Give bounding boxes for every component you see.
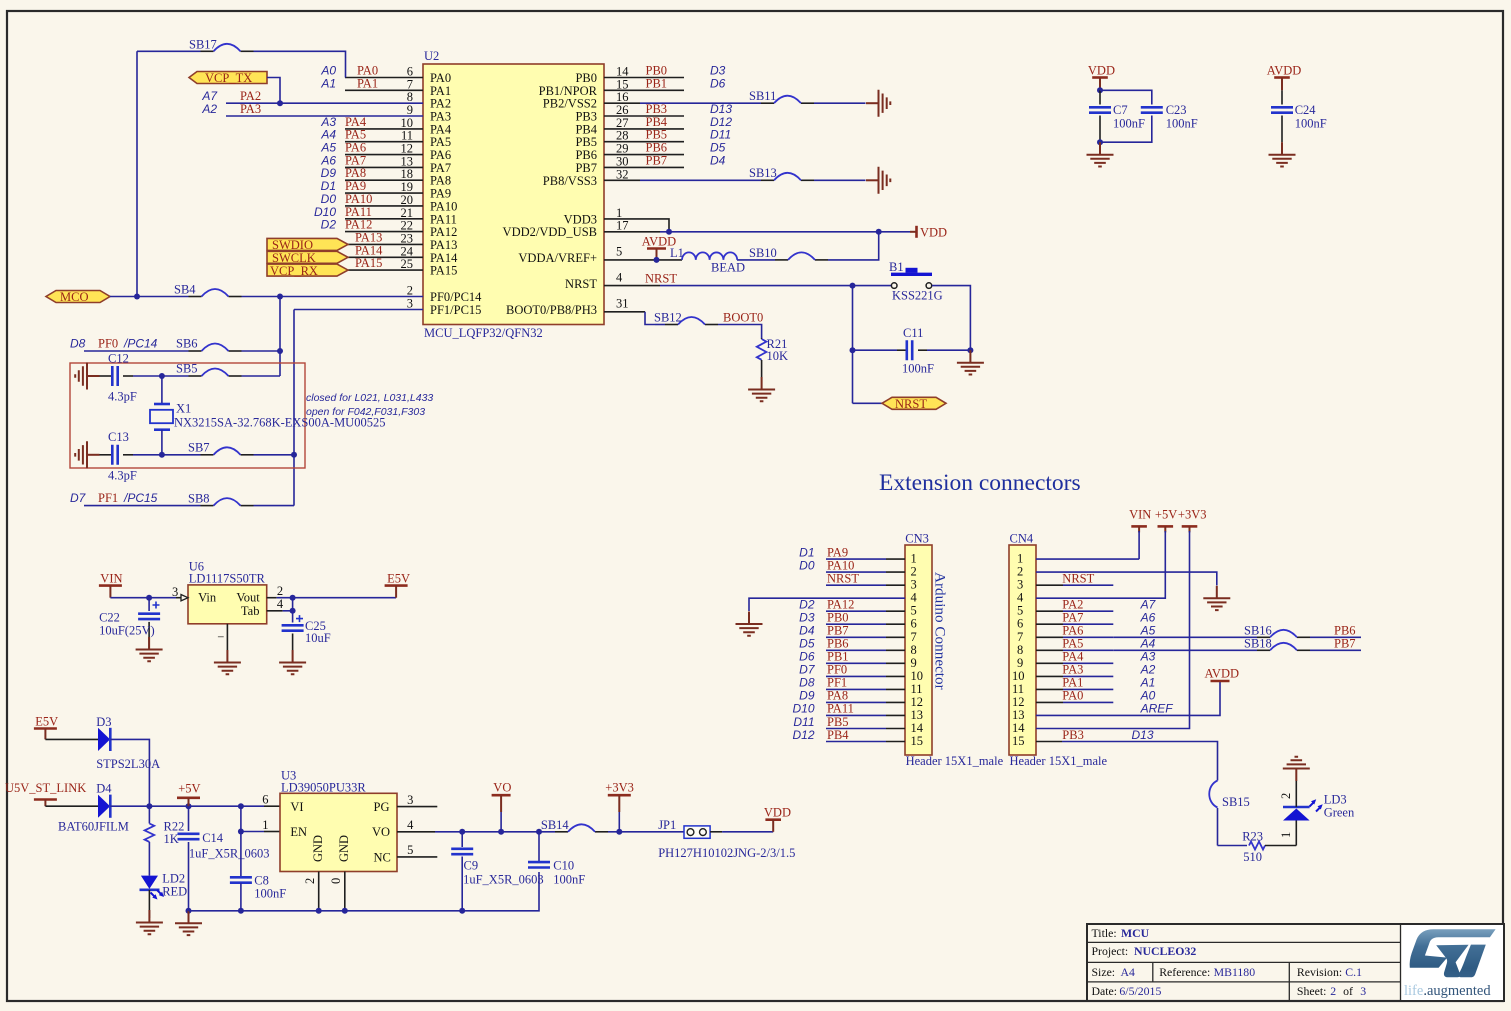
junction C10 top xyxy=(536,829,542,835)
CN3 pin1 wire PA9 xyxy=(799,546,905,560)
wire D4 to U3 xyxy=(110,805,264,807)
svg-text:E5V: E5V xyxy=(387,572,410,586)
U6 GND pin xyxy=(226,624,228,650)
svg-text:Arduino Connector: Arduino Connector xyxy=(932,572,949,690)
svg-text:PB3: PB3 xyxy=(646,102,668,116)
MCU U2 left pin names xyxy=(430,71,482,317)
wire NRST pin4 row xyxy=(604,272,891,286)
svg-text:D3: D3 xyxy=(799,611,815,625)
svg-text:PA13: PA13 xyxy=(355,230,382,244)
svg-text:Project:: Project: xyxy=(1092,944,1129,958)
capacitor C13 xyxy=(100,430,137,483)
svg-text:LD2: LD2 xyxy=(162,872,185,886)
svg-text:D2: D2 xyxy=(321,218,337,232)
junction C11 left xyxy=(850,347,856,353)
svg-text:LD39050PU33R: LD39050PU33R xyxy=(281,781,366,795)
svg-text:9: 9 xyxy=(911,656,917,670)
svg-text:VIN: VIN xyxy=(1129,508,1151,522)
junction GND pin0 rail xyxy=(342,908,348,914)
junction EN row xyxy=(238,829,244,835)
svg-text:Reference:: Reference: xyxy=(1159,965,1210,979)
CN3 pin15 wire PB4 xyxy=(792,728,905,742)
CN4 pin3 wire NRST xyxy=(1036,572,1113,586)
svg-text:PB8/VSS3: PB8/VSS3 xyxy=(543,174,597,188)
capacitor C7 xyxy=(1089,90,1145,142)
wire PA0 row xyxy=(320,64,423,78)
wire SB7 row xyxy=(133,454,294,456)
power flag VIN CN4 xyxy=(1129,508,1151,527)
svg-text:0: 0 xyxy=(329,878,343,884)
CN4 pin5 wire PA2 xyxy=(1036,598,1157,612)
wire PA9 row xyxy=(321,179,423,193)
svg-text:9: 9 xyxy=(1017,656,1023,670)
CN3 pin10 wire PF0 xyxy=(799,663,905,677)
ground bottom rail xyxy=(175,911,202,935)
svg-text:/PC14: /PC14 xyxy=(123,337,158,351)
svg-text:CN3: CN3 xyxy=(905,531,929,545)
svg-text:of: of xyxy=(1343,984,1353,998)
wire PB2/VSS2 row to SB11 xyxy=(604,102,866,104)
svg-text:15: 15 xyxy=(616,77,629,91)
svg-text:D9: D9 xyxy=(799,689,815,703)
junction VDD branch xyxy=(876,229,882,235)
svg-text:11: 11 xyxy=(1012,682,1024,696)
junction U6 out xyxy=(290,595,296,601)
wire PB8/VSS3 row to SB13 xyxy=(604,179,866,181)
svg-text:A5: A5 xyxy=(1140,624,1156,638)
svg-text:10K: 10K xyxy=(767,349,789,363)
svg-text:4: 4 xyxy=(1017,591,1024,605)
svg-text:1: 1 xyxy=(262,818,268,832)
svg-text:12: 12 xyxy=(1012,695,1025,709)
svg-text:VCP_RX: VCP_RX xyxy=(270,264,318,278)
CN4 pin12 wire PA0 xyxy=(1036,689,1156,703)
ground C7/C23 xyxy=(1087,142,1114,166)
wire PB0 row xyxy=(604,64,726,78)
svg-text:11: 11 xyxy=(401,129,413,143)
svg-text:12: 12 xyxy=(911,695,924,709)
svg-text:PA8: PA8 xyxy=(827,689,848,703)
CN4 pin10 wire PA3 xyxy=(1036,663,1156,677)
svg-text:PF1: PF1 xyxy=(827,676,847,690)
svg-text:E5V: E5V xyxy=(35,715,58,729)
svg-text:EN: EN xyxy=(290,825,307,839)
regulator U6 body xyxy=(188,560,267,645)
svg-text:SB12: SB12 xyxy=(654,311,682,325)
solder bridge SB14 xyxy=(541,818,595,832)
svg-text:5: 5 xyxy=(911,604,917,618)
wire PA3 row xyxy=(201,102,423,116)
svg-text:PB7: PB7 xyxy=(646,153,668,167)
capacitor C12 xyxy=(100,352,137,404)
svg-text:5: 5 xyxy=(407,843,413,857)
solder bridge SB5 xyxy=(176,362,229,377)
power flag +3V3 xyxy=(605,781,634,832)
CN3 pin14 wire PB5 xyxy=(793,715,905,729)
svg-text:Header 15X1_male: Header 15X1_male xyxy=(1010,754,1108,768)
wire pin3 PF1 row xyxy=(294,309,423,311)
svg-text:A4: A4 xyxy=(1121,965,1136,979)
svg-text:2: 2 xyxy=(1330,984,1336,998)
svg-text:NC: NC xyxy=(374,851,391,865)
svg-text:life.augmented: life.augmented xyxy=(1404,983,1491,999)
svg-text:100nF: 100nF xyxy=(553,873,585,887)
svg-text:D7: D7 xyxy=(70,491,87,505)
svg-text:PA13: PA13 xyxy=(430,238,457,252)
svg-text:8: 8 xyxy=(1017,643,1023,657)
wire SB17 net top xyxy=(137,51,346,77)
svg-text:PA6: PA6 xyxy=(1062,624,1083,638)
svg-text:A3: A3 xyxy=(1140,650,1156,664)
wire VCP_TX to PA2 xyxy=(267,78,280,104)
inductor L1 BEAD xyxy=(670,246,745,275)
svg-text:SB10: SB10 xyxy=(749,246,777,260)
wire PA5 row xyxy=(320,128,423,142)
wire SB14 row xyxy=(528,831,684,833)
svg-text:VI: VI xyxy=(290,800,303,814)
svg-text:1K: 1K xyxy=(164,832,179,846)
wire PF1 vertical to SB8 xyxy=(293,310,295,506)
svg-text:4: 4 xyxy=(407,818,414,832)
svg-text:17: 17 xyxy=(616,219,629,233)
CN4 pin numbers xyxy=(1012,552,1025,748)
svg-text:SWCLK: SWCLK xyxy=(272,251,316,265)
ground C25 xyxy=(279,650,306,674)
junction C9 bottom rail xyxy=(459,908,465,914)
svg-text:NRST: NRST xyxy=(895,397,927,411)
resistor R21 xyxy=(757,337,788,377)
CN3 pin5 wire PA12 xyxy=(799,598,905,612)
svg-text:11: 11 xyxy=(911,682,923,696)
solder bridge SB13 xyxy=(749,166,801,180)
CN4 pin4 wire to +5V xyxy=(1036,526,1165,598)
svg-text:Green: Green xyxy=(1324,806,1355,820)
solder bridge SB10 xyxy=(749,246,815,260)
wire PB5 row xyxy=(604,128,731,142)
svg-text:26: 26 xyxy=(616,103,629,117)
wire PA2 row xyxy=(201,89,423,103)
solder bridge SB4 xyxy=(174,283,229,297)
svg-text:C8: C8 xyxy=(254,874,269,888)
svg-text:A1: A1 xyxy=(1140,676,1156,690)
svg-text:13: 13 xyxy=(911,708,924,722)
wire EN pin1 xyxy=(241,818,280,832)
diode D3 STPS2L30A xyxy=(45,715,160,771)
svg-text:15: 15 xyxy=(1012,734,1025,748)
svg-text:SB17: SB17 xyxy=(189,38,217,52)
capacitor C22 xyxy=(99,598,160,649)
svg-text:PA0: PA0 xyxy=(1062,689,1083,703)
wire PB6 row xyxy=(604,141,726,155)
diode D4 BAT60JFILM xyxy=(45,782,128,834)
crystal X1 xyxy=(150,376,385,455)
svg-text:PH127H10102JNG-2/3/1.5: PH127H10102JNG-2/3/1.5 xyxy=(658,846,795,860)
svg-text:PG: PG xyxy=(374,800,390,814)
flag VCP_RX xyxy=(267,264,348,278)
flag SWDIO xyxy=(267,238,348,252)
CN4 pin6 wire PA7 xyxy=(1036,611,1156,625)
svg-text:10: 10 xyxy=(1012,669,1025,683)
svg-text:PB5: PB5 xyxy=(646,128,668,142)
svg-text:100nF: 100nF xyxy=(254,887,286,901)
junction C25 top xyxy=(290,608,296,614)
ST logo cell xyxy=(1402,925,1504,1000)
svg-text:closed for L021, L031,L433: closed for L021, L031,L433 xyxy=(306,392,433,404)
svg-text:6/5/2015: 6/5/2015 xyxy=(1119,984,1161,998)
wire PB1 row xyxy=(604,76,726,90)
ground C13 left xyxy=(75,441,99,468)
svg-text:4.3pF: 4.3pF xyxy=(108,469,137,483)
wire PA13 row xyxy=(348,230,423,244)
svg-text:7: 7 xyxy=(911,630,917,644)
svg-text:3: 3 xyxy=(172,585,178,599)
svg-text:PF1: PF1 xyxy=(98,491,118,505)
svg-text:SB11: SB11 xyxy=(749,89,776,103)
svg-text:Vout: Vout xyxy=(236,591,260,605)
svg-text:100nF: 100nF xyxy=(902,362,934,376)
jumper JP1 xyxy=(658,818,795,860)
svg-text:PA3: PA3 xyxy=(240,102,261,116)
title block outline xyxy=(1087,924,1504,1001)
wire PA8 row xyxy=(321,166,423,180)
CN3 pin8 wire PB6 xyxy=(799,637,905,651)
svg-text:BAT60JFILM: BAT60JFILM xyxy=(58,820,129,834)
MCU U2 left pin numbers xyxy=(401,65,414,311)
connector CN4 body xyxy=(1009,531,1107,768)
wire PA1 row xyxy=(320,76,423,90)
wire PA11 row xyxy=(314,205,423,219)
svg-text:PA5: PA5 xyxy=(430,135,451,149)
svg-text:7: 7 xyxy=(1017,630,1023,644)
CN3 pin2 wire PA10 xyxy=(799,559,905,573)
ground SB11 right xyxy=(866,90,890,117)
junction crystal bottom xyxy=(159,452,165,458)
svg-text:D7: D7 xyxy=(799,663,816,677)
svg-text:+3V3: +3V3 xyxy=(1178,508,1207,522)
svg-text:18: 18 xyxy=(401,167,414,181)
title block texts row3 xyxy=(1092,965,1363,979)
svg-text:A6: A6 xyxy=(1140,611,1156,625)
svg-text:MCU: MCU xyxy=(1121,926,1150,940)
svg-text:Title:: Title: xyxy=(1092,926,1117,940)
bottom rail wire xyxy=(189,910,463,912)
CN4 pin8 wire PA5 SB18 xyxy=(1036,637,1361,651)
wire VIN to U6 xyxy=(110,597,176,599)
junction C7 bottom xyxy=(1097,139,1103,145)
junction SB7 right xyxy=(291,452,297,458)
junction VDD C7 xyxy=(1097,87,1103,93)
CN3 pin7 wire PB7 xyxy=(799,624,905,638)
MCU U2 right pin numbers xyxy=(616,65,629,311)
label D7 PF1 /PC15 xyxy=(70,491,158,505)
svg-text:10uF(25V): 10uF(25V) xyxy=(99,623,155,637)
CN4 pin13 wire AREF to AVDD xyxy=(1036,681,1220,716)
connector CN3 body xyxy=(905,531,1004,768)
power flag AVDD CN4 xyxy=(1205,667,1240,682)
CN3 pin6 wire PB0 xyxy=(799,611,905,625)
svg-text:A2: A2 xyxy=(201,102,217,116)
power flag AVDD on pin5 xyxy=(642,235,677,260)
flag SWCLK xyxy=(267,251,348,265)
svg-text:7: 7 xyxy=(407,77,413,91)
ground U6 xyxy=(214,650,241,674)
svg-text:PA1: PA1 xyxy=(430,84,451,98)
svg-text:U5V_ST_LINK: U5V_ST_LINK xyxy=(5,781,86,795)
svg-text:SB6: SB6 xyxy=(176,337,198,351)
svg-text:5: 5 xyxy=(1017,604,1023,618)
svg-text:VCP_TX: VCP_TX xyxy=(205,71,252,85)
power flag E5V U6 xyxy=(385,572,410,598)
wire B1 right to C11 xyxy=(932,286,970,351)
wire VDD3 pin1 xyxy=(604,219,669,232)
svg-text:AVDD: AVDD xyxy=(1205,667,1240,681)
svg-text:SB14: SB14 xyxy=(541,818,570,832)
svg-text:3: 3 xyxy=(1360,984,1366,998)
ST logo xyxy=(1410,929,1496,977)
svg-text:Revision:: Revision: xyxy=(1297,965,1342,979)
svg-text:LD1117S50TR: LD1117S50TR xyxy=(189,572,266,586)
svg-text:PA10: PA10 xyxy=(430,199,457,213)
wire VDDA pin5 row xyxy=(604,232,879,260)
MCU U2 right pin names xyxy=(503,71,598,317)
power flag VDD top C7 xyxy=(1088,64,1115,91)
CN4 pin9 wire PA4 xyxy=(1036,650,1156,664)
CN3 pin numbers xyxy=(911,552,924,748)
svg-text:−: − xyxy=(217,630,224,644)
svg-text:1: 1 xyxy=(1279,832,1293,838)
ground SB13 right xyxy=(866,167,890,194)
junction C11 right xyxy=(967,347,973,353)
svg-text:PB0: PB0 xyxy=(827,611,849,625)
svg-text:X1: X1 xyxy=(176,402,191,416)
junction GND pin2 rail xyxy=(316,908,322,914)
svg-text:D8: D8 xyxy=(799,676,815,690)
svg-text:+5V: +5V xyxy=(178,782,200,796)
svg-text:C9: C9 xyxy=(464,859,479,873)
power flag VDD right xyxy=(910,226,947,240)
svg-text:Tab: Tab xyxy=(241,604,260,618)
power flag +5V xyxy=(177,782,201,807)
wire vertical x280 to crystal xyxy=(279,297,281,377)
title block texts row4 xyxy=(1092,984,1367,998)
svg-text:PB4: PB4 xyxy=(827,728,849,742)
junction AVDD pin5 xyxy=(654,257,660,263)
junction C22 top xyxy=(146,595,152,601)
svg-text:3: 3 xyxy=(407,297,413,311)
svg-text:VDD: VDD xyxy=(920,226,947,240)
capacitor C10 xyxy=(528,832,585,887)
svg-text:4: 4 xyxy=(277,597,284,611)
svg-text:PB6: PB6 xyxy=(1334,624,1356,638)
junction NRST branch xyxy=(850,283,856,289)
wire VDD2 pin17 to VDD xyxy=(604,231,910,233)
svg-text:PA1: PA1 xyxy=(357,76,378,90)
CN3 pin4 wire GND xyxy=(749,598,905,611)
junction +5V node xyxy=(186,803,192,809)
junction PA2/VCP_TX xyxy=(277,100,283,106)
svg-text:4: 4 xyxy=(616,271,623,285)
svg-text:D13: D13 xyxy=(1132,728,1154,742)
svg-text:D3: D3 xyxy=(96,715,111,729)
svg-text:PA15: PA15 xyxy=(355,256,382,270)
svg-text:SB15: SB15 xyxy=(1222,795,1250,809)
capacitor C24 xyxy=(1271,90,1327,142)
wire PB4 row xyxy=(604,115,732,129)
svg-text:25: 25 xyxy=(401,257,414,271)
svg-text:3: 3 xyxy=(1017,578,1023,592)
crystal block outline xyxy=(70,363,305,468)
capacitor C25 xyxy=(282,611,331,650)
solder bridge SB18 xyxy=(1244,637,1356,651)
power flag U5V_ST_LINK xyxy=(5,781,86,806)
svg-text:10uF: 10uF xyxy=(305,631,331,645)
title block texts row1 xyxy=(1092,926,1150,940)
svg-text:NRST: NRST xyxy=(645,272,677,286)
svg-text:SB16: SB16 xyxy=(1244,624,1272,638)
power flag VO xyxy=(492,781,512,832)
svg-text:PB1/NPOR: PB1/NPOR xyxy=(539,84,598,98)
wire VI pin6 xyxy=(262,793,280,807)
solder bridge SB16 xyxy=(1244,624,1356,638)
svg-text:SB18: SB18 xyxy=(1244,637,1272,651)
svg-text:PB7: PB7 xyxy=(1334,637,1356,651)
svg-text:D4: D4 xyxy=(799,624,815,638)
svg-text:C22: C22 xyxy=(99,611,120,625)
CN4 pin15 wire PB3 D13 xyxy=(1036,728,1218,770)
svg-text:13: 13 xyxy=(1012,708,1025,722)
svg-text:PF1/PC15: PF1/PC15 xyxy=(430,303,481,317)
svg-text:D6: D6 xyxy=(799,650,815,664)
junction crystal top xyxy=(159,373,165,379)
svg-text:2: 2 xyxy=(407,284,413,298)
CN4 pin1 wire to VIN xyxy=(1036,526,1139,559)
flag MCO xyxy=(46,290,110,304)
capacitor C23 xyxy=(1141,103,1198,131)
svg-text:D2: D2 xyxy=(799,598,815,612)
solder bridge SB15 vertical xyxy=(1209,770,1250,846)
svg-text:5: 5 xyxy=(616,244,622,258)
svg-text:1: 1 xyxy=(1017,552,1023,566)
svg-text:NRST: NRST xyxy=(565,277,597,291)
svg-text:PB3: PB3 xyxy=(1062,728,1084,742)
svg-text:14: 14 xyxy=(911,721,924,735)
wire VO pin4 xyxy=(397,818,528,832)
svg-text:MB1180: MB1180 xyxy=(1214,965,1256,979)
button B1 KSS221G xyxy=(889,260,943,303)
svg-text:D6: D6 xyxy=(710,76,726,90)
solder bridge SB8 xyxy=(188,492,241,506)
svg-text:C23: C23 xyxy=(1166,103,1187,117)
power flag VDD bottom xyxy=(764,806,791,832)
CN3 pin12 wire PA8 xyxy=(799,689,905,703)
solder bridge SB11 xyxy=(749,89,801,103)
svg-text:2: 2 xyxy=(1279,793,1293,799)
svg-text:30: 30 xyxy=(616,154,629,168)
svg-text:D11: D11 xyxy=(710,128,731,142)
svg-text:28: 28 xyxy=(616,129,629,143)
svg-text:VDD2/VDD_USB: VDD2/VDD_USB xyxy=(503,225,597,239)
svg-text:D11: D11 xyxy=(793,715,814,729)
wire BOOT0 pin31 row xyxy=(604,311,763,339)
svg-text:Extension connectors: Extension connectors xyxy=(879,470,1081,496)
svg-text:A4: A4 xyxy=(320,128,336,142)
svg-text:Vin: Vin xyxy=(198,591,217,605)
svg-text:10: 10 xyxy=(911,669,924,683)
svg-text:D13: D13 xyxy=(710,102,732,116)
svg-text:GND: GND xyxy=(337,835,351,862)
svg-text:2: 2 xyxy=(277,584,283,598)
U6 pin3 arrow xyxy=(172,585,188,601)
